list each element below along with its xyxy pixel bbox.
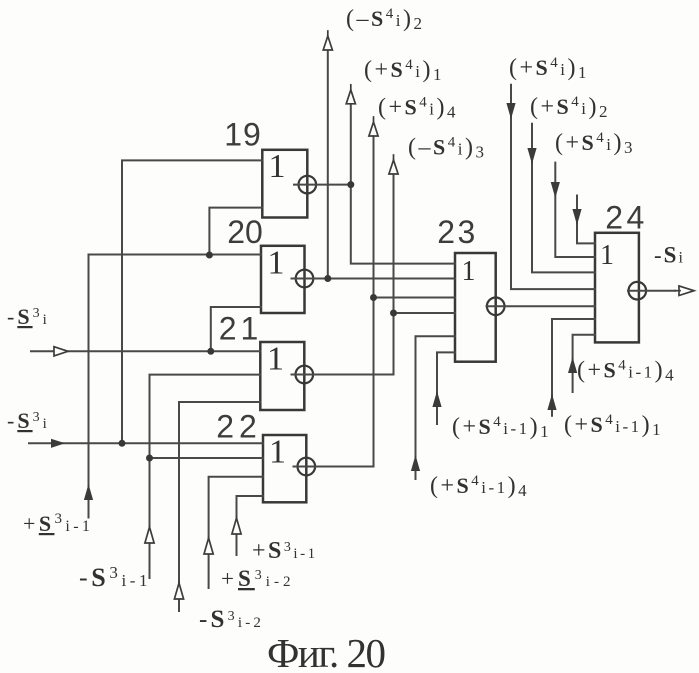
svg-text:(–S4i)3: (–S4i)3	[408, 135, 486, 162]
arrow up (output (+S4i)1)	[346, 85, 355, 104]
arrow right solid (input -S3i second)	[51, 439, 65, 448]
arrow up solid (input (+S4i-1)4 to gate 24)	[568, 357, 577, 373]
wire gate 19 input 1 (from -S3i second via riser)	[122, 160, 262, 443]
svg-text:20: 20	[227, 214, 263, 250]
node (-S4i)3 riser / gate23 input4 junction	[390, 310, 397, 317]
svg-text:-S3i: -S3i	[7, 408, 50, 433]
wire gate 20 output to gate 23 input 2	[292, 278, 456, 280]
wire gate 19 input 2 (from +S3i-1 line via riser)	[209, 208, 262, 255]
wire input -S3i (first) horizontal to gate 21 input 1	[31, 350, 260, 352]
svg-text:(+S4i)3: (+S4i)3	[555, 130, 635, 157]
arrow up open (input +S3i-2)	[204, 538, 213, 554]
arrow up solid (input +S3i-1 left riser)	[84, 484, 93, 500]
svg-text:1: 1	[268, 245, 285, 282]
svg-text:21: 21	[219, 311, 263, 347]
arrow up solid (input (+S4i-1)1 to gate 24)	[547, 394, 556, 410]
svg-text:-S3i-1: -S3i-1	[79, 563, 151, 592]
svg-text:(+S4i)1: (+S4i)1	[509, 55, 589, 82]
gate 22 (OR-NOT element)	[263, 434, 306, 503]
wire gate 24 input 6 ((+S4i-1)1 bottom external)	[552, 319, 595, 416]
svg-text:-S3i-2: -S3i-2	[199, 606, 264, 633]
svg-text:(+S4i-1)1: (+S4i-1)1	[564, 412, 663, 439]
wire gate 23 input 4 branch	[394, 312, 456, 314]
gate 19 (OR-NOT element)	[262, 148, 307, 218]
node (+S4i)4 riser / gate23 input3 junction	[370, 294, 377, 301]
wire gate 22 input 2 (from -S3i-1 riser junction)	[150, 457, 264, 459]
svg-text:(+S4i-1)4: (+S4i-1)4	[577, 358, 676, 385]
wire gate 19 output to node	[294, 184, 351, 186]
svg-text:19: 19	[224, 117, 262, 153]
gate 20 output inverter circle	[296, 270, 314, 288]
arrow down solid (input (+S4i)1 to gate 24)	[506, 103, 515, 119]
svg-text:22: 22	[216, 409, 262, 445]
svg-text:+S3i-1: +S3i-1	[23, 511, 93, 536]
svg-text:1: 1	[600, 240, 614, 271]
gate 23 output inverter circle	[487, 298, 505, 316]
gate 20 (OR-NOT element)	[261, 245, 305, 314]
node -S3i(2) / gate19 input1 junction	[119, 440, 126, 447]
wire gate 23 output to gate 24 input 5	[487, 305, 596, 307]
wire gate 22 input 4 (+S3i-1 external input riser)	[237, 496, 264, 555]
wire gate 24 input 7 ((+S4i-1)4 bottom external)	[573, 335, 595, 392]
wire gate 22 output to riser	[294, 466, 374, 468]
wire gate 24 output -Si	[628, 290, 675, 292]
wire gate 21 output to riser	[292, 374, 394, 376]
wire gate 21 input 2 (-S3i-1 external input riser)	[150, 375, 261, 578]
svg-text:(–S4i)2: (–S4i)2	[346, 6, 424, 33]
arrow up open (input -S3i-1)	[145, 527, 154, 543]
node gate19 input2 / gate20 input1 junction	[206, 252, 213, 259]
gate 24 output inverter circle	[629, 282, 647, 300]
wire gate 23 input 3 branch	[374, 297, 456, 299]
arrow right open (output -Si)	[675, 286, 694, 296]
wire gate 24 input 1 ((+S4i)1 top external)	[511, 85, 595, 289]
wire gate 24 input 3 ((+S4i)3 top external)	[555, 163, 595, 257]
wire riser (+S4i)4 from gate 22 output up to arrow	[373, 136, 375, 467]
wire gate 21 input 3 (-S3i-2 external input riser)	[179, 402, 260, 611]
svg-text:23: 23	[437, 214, 478, 250]
arrow up solid (input (+S4i-1)1 to gate 23)	[432, 391, 441, 407]
svg-text:1: 1	[269, 434, 286, 471]
wire riser (-S4i)3 from gate 21 output line up to arrow	[393, 174, 395, 375]
svg-text:(+S4i)1: (+S4i)1	[364, 57, 444, 84]
gate 19 output inverter circle	[299, 176, 317, 194]
arrow down solid (input (+S4i)2 to gate 24)	[527, 148, 536, 164]
wire gate 24 input 2 ((+S4i)2 top external)	[532, 124, 595, 273]
gate 21 output inverter circle	[296, 366, 314, 384]
wire gate 20 input 1 (+S3i-1 external input riser)	[89, 255, 262, 518]
arrow down solid (input (+S4i)3 to gate 24)	[551, 182, 560, 198]
arrow up open (input +S3i-1 lower)	[232, 518, 241, 534]
svg-text:+S3i-2: +S3i-2	[221, 566, 294, 591]
svg-text:Фиг. 20: Фиг. 20	[267, 630, 385, 673]
svg-text:(+S4i-1)1: (+S4i-1)1	[452, 414, 551, 441]
arrow up solid (input (+S4i-1)4 to gate 23)	[411, 455, 420, 471]
arrow right open (input -S3i first)	[54, 347, 68, 356]
wire riser (+S4i)1 and branch to gate 23 input 1	[351, 103, 455, 264]
wire input -S3i (second) horizontal to gate 22 input 1	[29, 442, 263, 444]
svg-text:(+S4i)4: (+S4i)4	[378, 95, 458, 122]
svg-text:1: 1	[269, 148, 286, 185]
node -S3i(1) / gate20 input2 junction	[207, 348, 214, 355]
gate 21 (OR-NOT element)	[260, 341, 304, 411]
svg-text:1: 1	[267, 341, 284, 378]
node gate19 output / (+S4i)1 riser junction	[347, 181, 354, 188]
wire gate 23 input 5 ((+S4i-1)4 external input)	[416, 336, 456, 479]
ARROWHEADS	[54, 31, 694, 599]
svg-text:-Si: -Si	[654, 243, 685, 268]
wire gate 22 input 3 (+S3i-2 external input riser)	[209, 477, 263, 588]
arrow up (output (-S4i)2)	[323, 31, 332, 50]
svg-text:+S3i-1: +S3i-1	[252, 538, 318, 564]
arrow up open (input -S3i-2)	[174, 583, 183, 599]
wire gate 24 input 4 (top external unlabeled)	[577, 196, 595, 244]
gate 22 output inverter circle	[298, 458, 316, 476]
node gate20 output / (-S4i)2 riser junction	[324, 275, 331, 282]
svg-text:24: 24	[605, 200, 648, 236]
JUNCTION DOTS	[119, 181, 398, 461]
gate 23 (OR-NOT element)	[455, 253, 496, 362]
svg-text:(+S4i)2: (+S4i)2	[530, 94, 610, 121]
svg-text:-S3i: -S3i	[7, 304, 50, 329]
arrow up (output (-S4i)3)	[389, 155, 398, 174]
arrow down solid (input 4 to gate 24)	[572, 209, 581, 225]
svg-text:1: 1	[462, 256, 476, 287]
wire riser (-S4i)2 from gate 20 output junction up to arrow	[327, 51, 329, 279]
node -S3i-1 riser / gate22 input2 junction	[146, 455, 153, 462]
gate 24 (OR-NOT element)	[595, 233, 639, 343]
wire gate 20 input 2 (from -S3i first via riser)	[211, 307, 261, 351]
svg-text:(+S4i-1)4: (+S4i-1)4	[430, 473, 529, 500]
wire gate 23 input 6 ((+S4i-1)1 external input)	[437, 352, 455, 424]
arrow up (output (+S4i)4)	[369, 117, 378, 136]
